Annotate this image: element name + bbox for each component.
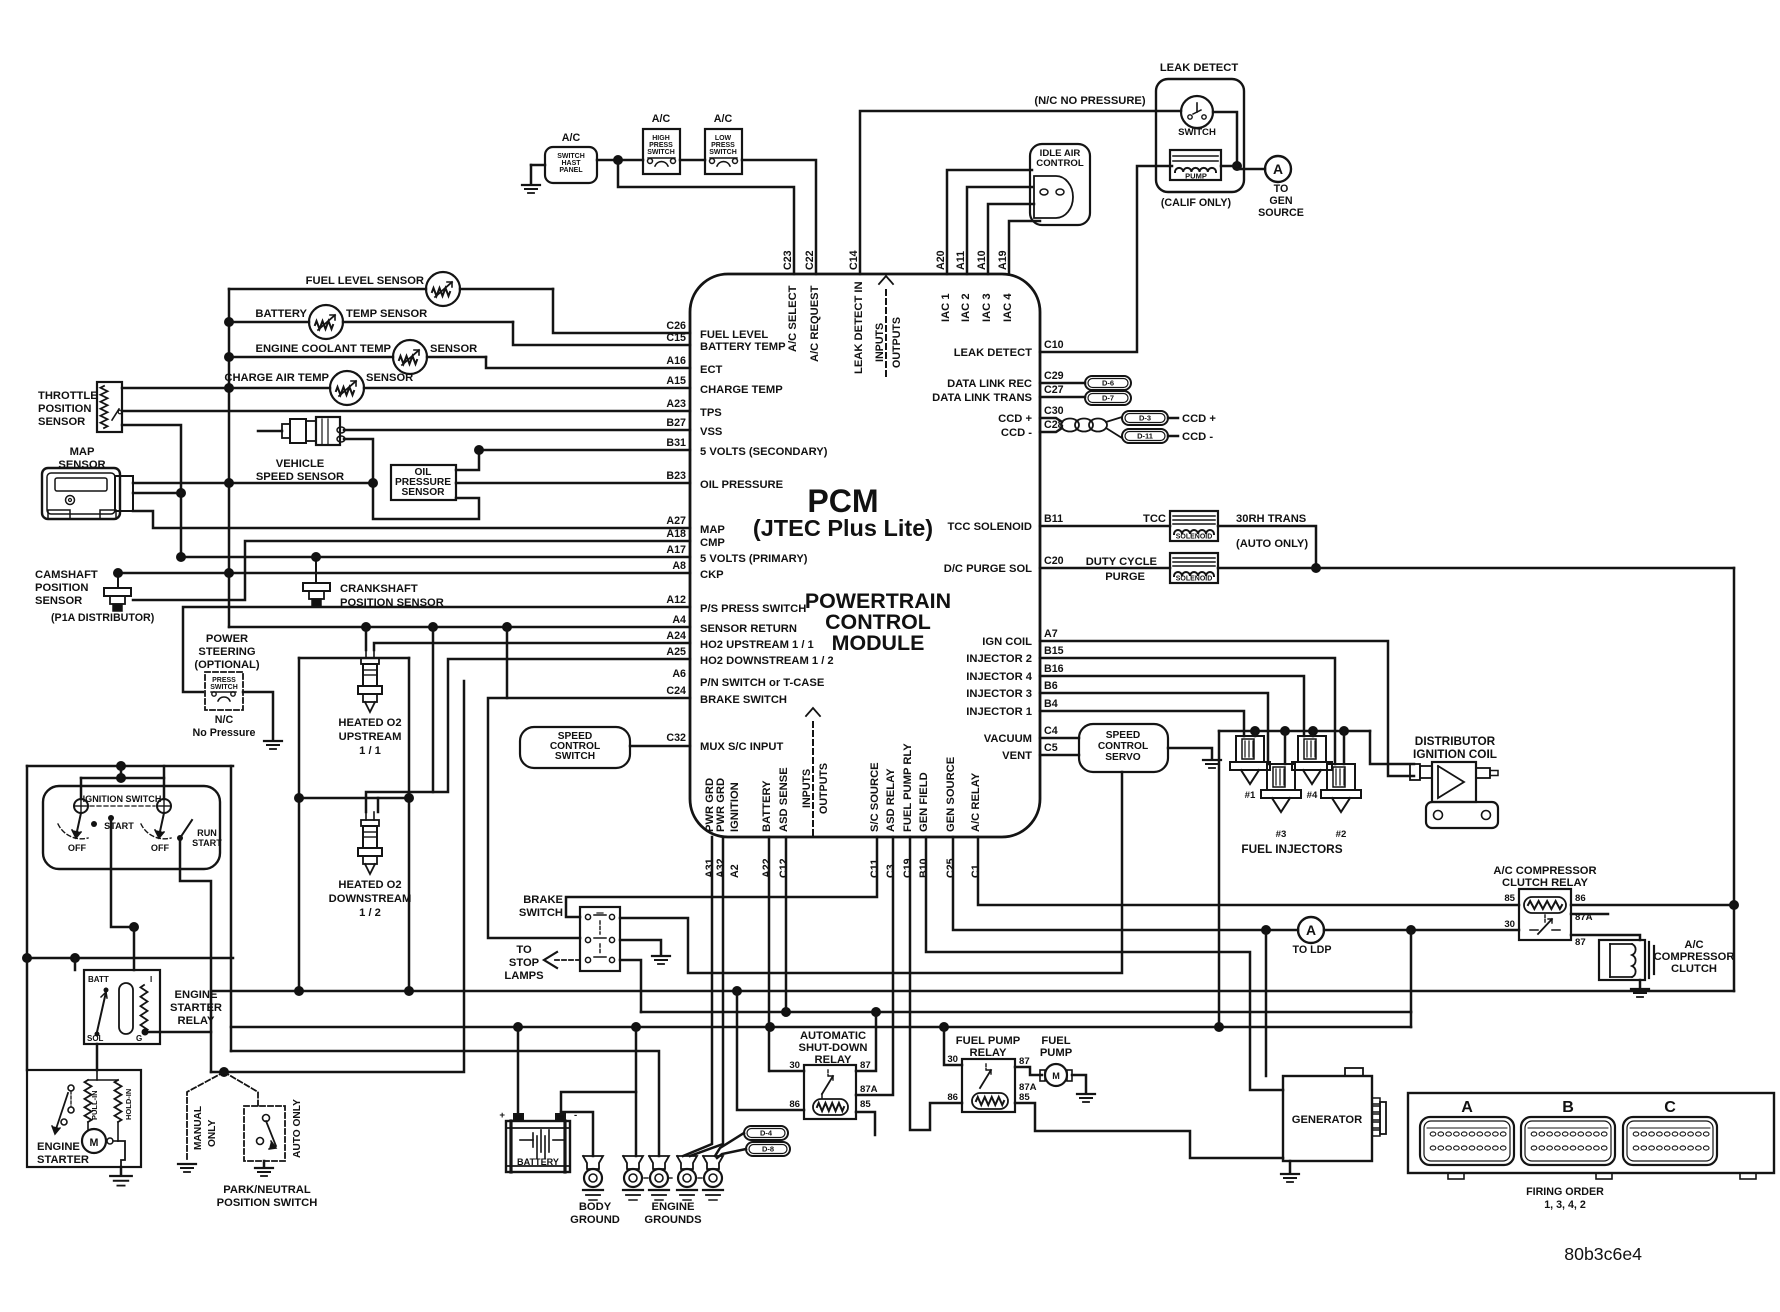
leak detect pump box outline — [1156, 79, 1244, 192]
svg-text:A/C RELAY: A/C RELAY — [970, 772, 982, 832]
svg-text:IGNITION COIL: IGNITION COIL — [1413, 747, 1497, 761]
svg-text:GEN SOURCE: GEN SOURCE — [945, 756, 957, 832]
svg-text:BATTERY: BATTERY — [517, 1157, 559, 1167]
svg-text:CMP: CMP — [700, 537, 725, 549]
PCM bottom inputs-outputs dashed arrow — [812, 722, 814, 837]
svg-text:B4: B4 — [1044, 698, 1058, 710]
wire B31 5V secondary — [479, 449, 690, 452]
ac clutch relay box — [1519, 889, 1571, 940]
wire ignition B+ right leg — [230, 766, 233, 1051]
svg-text:A4: A4 — [672, 614, 686, 626]
svg-text:SENSOR: SENSOR — [58, 459, 105, 471]
svg-text:VENT: VENT — [1002, 750, 1032, 762]
svg-text:(P1A DISTRIBUTOR): (P1A DISTRIBUTOR) — [51, 612, 155, 624]
svg-text:MODULE: MODULE — [832, 631, 925, 655]
svg-text:No Pressure: No Pressure — [193, 727, 256, 739]
brake switch box — [580, 907, 620, 971]
svg-text:A25: A25 — [666, 646, 686, 658]
wire A6 park neutral — [211, 681, 464, 1072]
svg-text:B10: B10 — [918, 858, 930, 878]
svg-text:PURGE: PURGE — [1105, 571, 1145, 583]
ignition switch left post — [74, 799, 88, 813]
wire B2 end to generator — [1410, 1011, 1413, 1014]
svg-text:A19: A19 — [997, 250, 1009, 270]
wire pump to circle A — [1221, 165, 1237, 168]
wire B6 injector3 — [1040, 693, 1268, 764]
wire ignition B+ row — [27, 957, 233, 960]
wire injector bus B+ riser — [1218, 731, 1221, 1027]
svg-text:CCD +: CCD + — [1182, 413, 1216, 425]
junction dot start wire — [129, 922, 139, 932]
svg-text:HEATED O2: HEATED O2 — [338, 879, 401, 891]
svg-text:S/C SOURCE: S/C SOURCE — [869, 762, 881, 832]
starter pull-in coil — [85, 1080, 92, 1122]
generator connector — [1372, 1098, 1380, 1104]
svg-text:PUMP: PUMP — [1185, 172, 1207, 181]
svg-text:TCC: TCC — [1143, 513, 1166, 525]
wire asd 30 — [770, 1070, 804, 1073]
wire inj4 supply stub — [1312, 731, 1315, 736]
wire pump to ground — [1072, 1075, 1086, 1092]
svg-text:A8: A8 — [672, 560, 686, 572]
wire battery plus — [517, 1027, 520, 1114]
generator ground — [1289, 1161, 1292, 1172]
svg-text:OFF: OFF — [68, 843, 87, 853]
svg-text:A20: A20 — [935, 250, 947, 270]
junction dots O2 loop — [294, 793, 304, 803]
ac clutch relay switch — [1544, 915, 1546, 924]
CCD- out — [1168, 435, 1178, 438]
svg-text:C25: C25 — [945, 858, 957, 878]
engine coolant sensor circle — [393, 340, 427, 374]
svg-text:SWITCH: SWITCH — [519, 907, 563, 919]
leak detect switch circle — [1181, 96, 1213, 128]
svg-text:A/C COMPRESSOR: A/C COMPRESSOR — [1493, 865, 1596, 877]
svg-text:A7: A7 — [1044, 628, 1058, 640]
svg-text:SWITCH: SWITCH — [1178, 127, 1216, 138]
svg-text:PUMP: PUMP — [1040, 1047, 1073, 1059]
svg-text:OIL PRESSURE: OIL PRESSURE — [700, 479, 784, 491]
ignition switch right post — [157, 799, 171, 813]
starter relay contact — [97, 992, 106, 1032]
svg-text:C20: C20 — [1044, 555, 1064, 567]
vehicle speed sensor glyph — [258, 430, 282, 433]
svg-text:GROUNDS: GROUNDS — [644, 1214, 702, 1226]
PCM top inputs-outputs dashed arrow — [885, 290, 887, 378]
bus B1 ignition-switched — [211, 990, 1734, 993]
wire CMP A18 — [133, 541, 690, 600]
park neutral ground — [263, 1161, 266, 1166]
map sensor body — [42, 468, 120, 519]
wire IAC1 — [947, 170, 1032, 274]
svg-text:A/C REQUEST: A/C REQUEST — [809, 285, 821, 362]
svg-text:C5: C5 — [1044, 742, 1058, 754]
svg-text:FUEL: FUEL — [1041, 1035, 1070, 1047]
svg-text:CONTROL: CONTROL — [1036, 158, 1084, 169]
svg-text:DISTRIBUTOR: DISTRIBUTOR — [1415, 734, 1496, 748]
svg-text:SENSOR: SENSOR — [38, 416, 85, 428]
idle air connector glyph — [1034, 176, 1073, 218]
svg-text:IGNITION: IGNITION — [729, 782, 741, 832]
wire CCD+ stub — [1040, 418, 1062, 422]
wire battery minus — [561, 1092, 636, 1114]
svg-text:B: B — [1562, 1098, 1574, 1116]
wire C14 leak detect in — [860, 111, 1181, 274]
CCD+ out — [1168, 417, 1178, 420]
wire switch to pump junction — [1213, 112, 1237, 166]
svg-text:A32: A32 — [715, 858, 727, 878]
svg-text:GENERATOR: GENERATOR — [1292, 1114, 1362, 1126]
svg-text:VSS: VSS — [700, 426, 723, 438]
svg-text:INJECTOR 4: INJECTOR 4 — [966, 671, 1032, 683]
idle air control box — [1030, 144, 1090, 225]
capsule D-8 — [746, 1142, 790, 1156]
junction dots A4 — [361, 622, 371, 632]
wire ground bus y1051 — [231, 1051, 659, 1156]
engine ground lug 3 — [677, 1156, 697, 1169]
svg-text:CHARGE TEMP: CHARGE TEMP — [700, 384, 783, 396]
junction dot TPS-MAP 5V — [176, 488, 186, 498]
svg-text:I: I — [150, 975, 152, 984]
wire inj3 supply stub — [1284, 731, 1287, 764]
svg-text:1 / 1: 1 / 1 — [359, 745, 381, 757]
battery temp wire — [229, 321, 309, 324]
svg-text:C19: C19 — [902, 858, 914, 878]
generator box — [1283, 1076, 1372, 1161]
svg-text:86: 86 — [789, 1099, 800, 1110]
svg-text:COMPRESSOR: COMPRESSOR — [1654, 951, 1735, 963]
svg-text:B6: B6 — [1044, 680, 1058, 692]
wire asd 87 to B2 — [856, 1012, 876, 1071]
svg-text:ONLY: ONLY — [207, 1119, 218, 1147]
wire MAP bottom to A27 — [133, 511, 690, 528]
svg-text:RELAY: RELAY — [970, 1047, 1007, 1059]
heated O2 upstream sensor — [365, 650, 367, 658]
svg-text:MANUAL: MANUAL — [193, 1106, 204, 1150]
svg-text:MAP: MAP — [70, 446, 95, 458]
junction dot park neutral — [219, 1067, 229, 1077]
junction dots on B4 — [513, 1022, 523, 1032]
svg-text:A: A — [1306, 922, 1316, 938]
data link capsule D-7 — [1085, 391, 1131, 405]
fp relay switch — [985, 1064, 987, 1070]
connector A — [1420, 1117, 1514, 1165]
svg-text:HOLD-IN: HOLD-IN — [124, 1089, 133, 1120]
svg-text:IAC 2: IAC 2 — [960, 293, 972, 322]
svg-text:HAST: HAST — [561, 160, 581, 167]
engine ground lug 2 — [649, 1156, 669, 1169]
svg-text:POWER: POWER — [206, 633, 248, 645]
svg-text:A/C: A/C — [714, 113, 733, 125]
wire leak detect C10 — [1040, 166, 1172, 352]
svg-text:87A: 87A — [860, 1084, 878, 1095]
junction dot coolant — [224, 352, 234, 362]
starter contacts — [68, 1085, 74, 1091]
svg-text:SERVO: SERVO — [1105, 752, 1141, 763]
svg-text:SENSOR: SENSOR — [401, 487, 445, 498]
O2 heater loop mid — [299, 797, 409, 800]
svg-text:87: 87 — [1019, 1056, 1030, 1067]
wire high to low press switch — [680, 159, 705, 162]
svg-text:BATTERY: BATTERY — [255, 308, 307, 320]
svg-text:80b3c6e4: 80b3c6e4 — [1564, 1244, 1642, 1264]
wire VSS signal B27 — [344, 429, 690, 432]
fuel level sensor circle — [426, 272, 460, 306]
svg-text:DOWNSTREAM: DOWNSTREAM — [329, 893, 412, 905]
svg-text:ENGINE: ENGINE — [652, 1201, 695, 1213]
asd relay coil — [813, 1099, 848, 1115]
starter relay coil — [119, 983, 133, 1034]
svg-text:85: 85 — [860, 1099, 871, 1110]
svg-text:CLUTCH RELAY: CLUTCH RELAY — [1502, 877, 1589, 889]
junction dot pump output — [1232, 161, 1242, 171]
svg-text:86: 86 — [947, 1092, 958, 1103]
svg-text:PRESS: PRESS — [212, 677, 236, 684]
svg-text:ENGINE: ENGINE — [37, 1141, 80, 1153]
engine ground lug 4 — [703, 1156, 723, 1169]
svg-text:CONTROL: CONTROL — [1098, 741, 1148, 752]
svg-text:C10: C10 — [1044, 339, 1064, 351]
starter hold-in coil — [115, 1080, 122, 1122]
wire C29 data link rec — [1040, 382, 1085, 385]
svg-text:D-4: D-4 — [760, 1129, 773, 1138]
wire bus to coil — [1370, 731, 1414, 764]
svg-text:C30: C30 — [1044, 405, 1064, 417]
svg-text:A6: A6 — [672, 668, 686, 680]
svg-text:C26: C26 — [666, 320, 686, 332]
svg-text:5 VOLTS (PRIMARY): 5 VOLTS (PRIMARY) — [700, 553, 808, 565]
svg-text:1, 3, 4, 2: 1, 3, 4, 2 — [1544, 1199, 1586, 1211]
svg-text:SENSOR RETURN: SENSOR RETURN — [700, 623, 797, 635]
svg-text:(OPTIONAL): (OPTIONAL) — [194, 659, 260, 671]
svg-text:GEN: GEN — [1269, 195, 1292, 207]
svg-text:30: 30 — [947, 1054, 958, 1065]
svg-text:TO: TO — [516, 944, 532, 956]
svg-text:INJECTOR 3: INJECTOR 3 — [966, 688, 1032, 700]
fuel injector #1 — [1236, 736, 1264, 762]
pcm connectors outer box — [1408, 1093, 1774, 1173]
svg-text:B11: B11 — [1044, 513, 1063, 525]
junction dot 5V primary — [176, 552, 186, 562]
wire C1 to clutch relay coil — [978, 837, 1519, 905]
wires capsules to lug — [715, 1133, 744, 1156]
svg-text:SWITCH: SWITCH — [210, 684, 238, 691]
wire C12 asd sense drop — [785, 837, 788, 1012]
svg-text:IAC 1: IAC 1 — [940, 293, 952, 322]
svg-text:SENSOR: SENSOR — [35, 595, 82, 607]
injector supply bus — [1219, 730, 1370, 733]
wire B16 injector4 — [1040, 676, 1304, 736]
svg-text:A18: A18 — [666, 528, 686, 540]
svg-text:THROTTLE: THROTTLE — [38, 390, 98, 402]
svg-text:IAC 3: IAC 3 — [981, 293, 993, 322]
ground at A/C switch panel — [531, 164, 545, 167]
wire gen source to circle A — [953, 837, 1298, 930]
wire IAC2 — [967, 187, 1032, 274]
svg-text:VEHICLE: VEHICLE — [276, 458, 325, 470]
wire B15 injector2 — [1040, 658, 1335, 764]
asd relay box — [804, 1065, 856, 1119]
junction dot crank 5V — [311, 552, 321, 562]
wire C5 vent — [1040, 754, 1079, 757]
svg-text:STARTER: STARTER — [170, 1002, 222, 1014]
engine starter relay box — [84, 970, 160, 1044]
svg-text:D-11: D-11 — [1137, 432, 1153, 441]
svg-text:D-7: D-7 — [1102, 394, 1114, 403]
svg-text:BODY: BODY — [579, 1201, 612, 1213]
svg-text:POSITION SWITCH: POSITION SWITCH — [217, 1197, 318, 1209]
junction dots ignition bus — [116, 761, 126, 771]
wire relay coil to right bus — [1571, 904, 1734, 907]
battery cells — [520, 1139, 533, 1141]
svg-text:STOP: STOP — [509, 957, 540, 969]
right bus vertical — [1733, 568, 1736, 991]
svg-text:OUTPUTS: OUTPUTS — [891, 317, 903, 368]
svg-text:#2: #2 — [1336, 829, 1347, 840]
svg-text:A/C SELECT: A/C SELECT — [787, 285, 799, 352]
wire fp 30 — [944, 1027, 962, 1065]
junction dots injector bus — [1250, 726, 1260, 736]
wire IAC4 — [1009, 221, 1040, 274]
svg-text:IAC 4: IAC 4 — [1002, 293, 1014, 322]
svg-text:C24: C24 — [666, 685, 686, 697]
wire fp 85 — [1015, 1103, 1283, 1158]
ac compressor clutch glyph — [1599, 940, 1645, 980]
junction dot VSS-B23 — [368, 478, 378, 488]
svg-text:C4: C4 — [1044, 725, 1058, 737]
svg-text:C11: C11 — [869, 859, 881, 878]
wire MAP top pin to B23 — [133, 482, 373, 485]
wire SOL terminal — [96, 1044, 99, 1070]
CCD capsule D-11 — [1122, 429, 1168, 443]
svg-text:TEMP SENSOR: TEMP SENSOR — [346, 308, 427, 320]
svg-text:C3: C3 — [885, 864, 897, 878]
wire A12 to press switch — [183, 607, 690, 692]
svg-text:BATT: BATT — [88, 975, 109, 984]
ignition feed top bus — [27, 765, 233, 768]
distributor ignition coil glyph — [1410, 764, 1420, 780]
fuel pump relay box — [962, 1059, 1015, 1112]
svg-text:LOW: LOW — [715, 135, 732, 142]
svg-text:A15: A15 — [666, 375, 686, 387]
wire starter relay G to run vertical — [145, 1031, 211, 1034]
manual only dashed — [187, 1072, 224, 1160]
left sensor-return bus — [228, 289, 231, 627]
park neutral dashed box — [244, 1106, 285, 1161]
engine coolant wire — [229, 356, 393, 359]
svg-text:CCD -: CCD - — [1001, 427, 1032, 439]
svg-text:INJECTOR 1: INJECTOR 1 — [966, 706, 1032, 718]
wire B4 injector1 — [1040, 711, 1244, 736]
svg-text:SENSOR: SENSOR — [430, 343, 477, 355]
PCM module outline — [690, 274, 1040, 837]
wire A4 drop x433 — [432, 627, 435, 792]
svg-text:FUEL LEVEL: FUEL LEVEL — [700, 329, 768, 341]
svg-text:M: M — [1052, 1071, 1060, 1081]
wire TPS signal A23 — [122, 410, 690, 413]
svg-text:AUTO ONLY: AUTO ONLY — [292, 1099, 303, 1158]
svg-text:ENGINE COOLANT TEMP: ENGINE COOLANT TEMP — [256, 343, 392, 355]
wire asd 87A to C3 — [856, 837, 893, 1095]
svg-text:DUTY CYCLE: DUTY CYCLE — [1086, 556, 1158, 568]
svg-text:RELAY: RELAY — [178, 1015, 215, 1027]
svg-text:86: 86 — [1575, 893, 1586, 904]
svg-text:TCC SOLENOID: TCC SOLENOID — [947, 521, 1032, 533]
A/C high pressure switch — [643, 129, 680, 174]
junction dot relay30 branch — [1406, 925, 1416, 935]
svg-text:HO2 UPSTREAM 1 / 1: HO2 UPSTREAM 1 / 1 — [700, 639, 814, 651]
svg-text:A22: A22 — [761, 858, 773, 878]
svg-text:FIRING ORDER: FIRING ORDER — [1526, 1186, 1604, 1198]
wire I terminal — [133, 927, 136, 970]
speed control switch box — [520, 727, 630, 768]
svg-text:(N/C NO PRESSURE): (N/C NO PRESSURE) — [1034, 95, 1146, 107]
wire low press switch to C22 A/C request — [742, 160, 816, 274]
svg-text:ENGINE: ENGINE — [175, 989, 218, 1001]
svg-text:CAMSHAFT: CAMSHAFT — [35, 569, 98, 581]
A/C switch hast panel box — [545, 147, 597, 183]
svg-text:INPUTS: INPUTS — [801, 769, 813, 808]
starter motor — [82, 1129, 106, 1153]
svg-text:INPUTS: INPUTS — [874, 323, 886, 362]
wire A4 drop x507 — [506, 627, 509, 698]
svg-text:PRESS: PRESS — [649, 142, 673, 149]
wire press switch to ground — [243, 692, 273, 739]
svg-text:VACUUM: VACUUM — [984, 733, 1032, 745]
svg-text:P/S PRESS SWITCH: P/S PRESS SWITCH — [700, 603, 806, 615]
svg-text:LEAK DETECT: LEAK DETECT — [1160, 62, 1238, 74]
wire MAP mid pin — [133, 492, 181, 495]
svg-text:INJECTOR 2: INJECTOR 2 — [966, 653, 1032, 665]
svg-text:MAP: MAP — [700, 524, 725, 536]
svg-text:DATA LINK REC: DATA LINK REC — [947, 378, 1032, 390]
svg-text:P/N SWITCH or T-CASE: P/N SWITCH or T-CASE — [700, 677, 825, 689]
junction dots O2 loop on B1 — [294, 986, 304, 996]
wire VSS return — [344, 439, 479, 519]
bus B4 battery feed — [231, 1026, 1411, 1029]
fuel pump motor — [1045, 1064, 1067, 1086]
svg-text:C23: C23 — [782, 250, 794, 270]
junction dot C12 on B2 — [781, 1007, 791, 1017]
svg-text:C22: C22 — [804, 250, 816, 270]
wire brake top-right to servo — [620, 772, 1122, 973]
svg-text:(JTEC Plus Lite): (JTEC Plus Lite) — [753, 515, 933, 541]
svg-text:85: 85 — [1019, 1092, 1030, 1103]
wire start contact down — [111, 818, 134, 927]
svg-text:87: 87 — [1575, 937, 1586, 948]
engine starter ground — [120, 1167, 123, 1174]
wire B4 right riser to relay30 — [1410, 930, 1413, 1027]
svg-text:A2: A2 — [729, 864, 741, 878]
svg-text:C1: C1 — [970, 864, 982, 878]
svg-text:SPEED SENSOR: SPEED SENSOR — [256, 471, 344, 483]
CCD twisted pair — [1061, 419, 1079, 432]
svg-text:OUTPUTS: OUTPUTS — [818, 763, 830, 814]
fuel level sensor wire — [229, 288, 426, 291]
wire lug4 feeds from PWR GRD — [683, 837, 712, 1156]
charge air sensor circle — [330, 371, 364, 405]
engine starter box — [27, 1070, 141, 1167]
svg-text:SHUT-DOWN: SHUT-DOWN — [799, 1042, 868, 1054]
duty cycle purge solenoid box — [1170, 553, 1218, 583]
wire run contact down — [180, 838, 211, 1072]
junction dot purge-tcc — [1311, 563, 1321, 573]
auto only dashed link — [224, 1072, 258, 1106]
svg-text:A17: A17 — [666, 544, 686, 556]
wire A24 HO2 upstream — [374, 643, 690, 650]
TCC solenoid box — [1170, 511, 1218, 541]
svg-text:A24: A24 — [666, 630, 686, 642]
